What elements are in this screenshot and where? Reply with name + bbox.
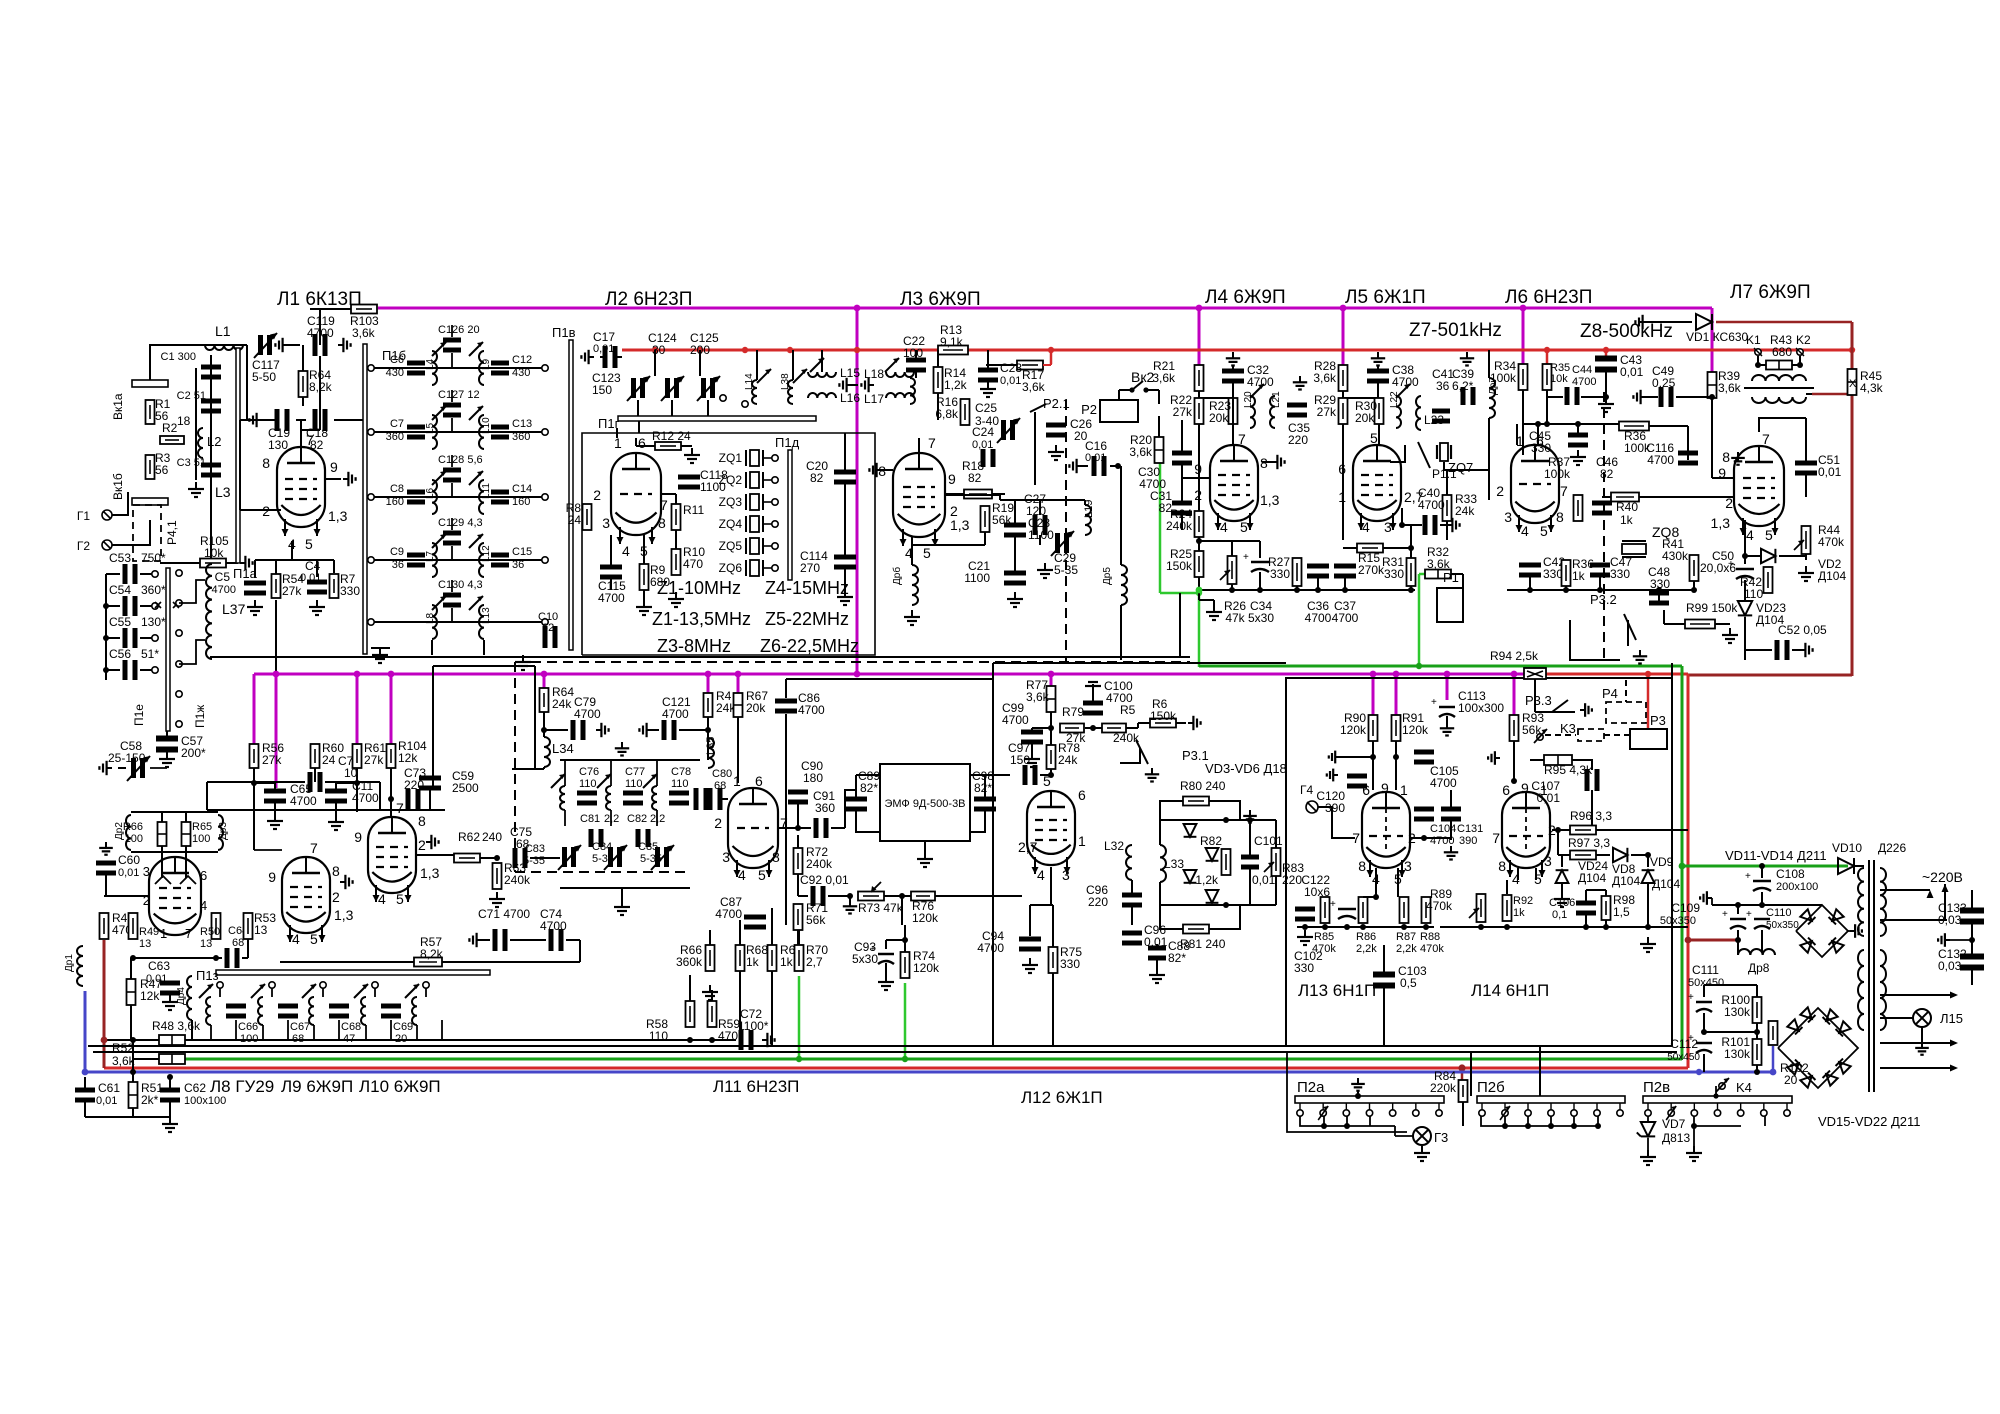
svg-text:9: 9: [330, 459, 338, 475]
svg-text:3,6k: 3,6k: [1022, 380, 1046, 394]
connector П1д bar: [788, 450, 792, 580]
svg-text:3: 3: [1062, 867, 1070, 883]
svg-text:2,7: 2,7: [806, 955, 823, 969]
svg-text:470: 470: [683, 557, 703, 571]
resistor R11: [672, 504, 681, 530]
svg-text:R73 47k: R73 47k: [858, 901, 904, 915]
wire magenta drop R93: [1513, 674, 1516, 716]
svg-text:2,2: 2,2: [650, 813, 665, 825]
svg-text:R48 3,6k: R48 3,6k: [152, 1019, 201, 1033]
cap C5: [244, 581, 266, 586]
series cap C128: [443, 468, 461, 473]
svg-text:L22: L22: [1389, 391, 1400, 408]
wire П2в links: [1694, 1116, 1741, 1126]
coil L34: [544, 737, 550, 767]
svg-text:120k: 120k: [1340, 723, 1367, 737]
svg-text:Л13 6Н1П: Л13 6Н1П: [1298, 981, 1376, 1000]
cap C21: [1004, 571, 1026, 576]
cap C20: [834, 470, 856, 475]
svg-text:0,01: 0,01: [96, 1095, 117, 1107]
svg-text:L13: L13: [481, 607, 492, 624]
resistor R46: [100, 913, 109, 939]
svg-text:24k: 24k: [1455, 504, 1475, 518]
svg-text:1k: 1k: [746, 955, 760, 969]
svg-text:C56: C56: [109, 647, 131, 661]
svg-text:750*: 750*: [141, 551, 166, 565]
svg-text:C109: C109: [1671, 901, 1700, 915]
diode VD11: [1800, 909, 1815, 924]
svg-text:2,2: 2,2: [604, 813, 619, 825]
gnd-cap C71: [477, 939, 482, 941]
svg-text:П1ж: П1ж: [193, 705, 207, 728]
choke Дрб: [912, 565, 918, 605]
svg-text:7: 7: [660, 497, 668, 513]
svg-text:Вк1а: Вк1а: [111, 393, 125, 420]
gnd C62: [169, 1117, 171, 1124]
gnd R105: [240, 562, 245, 564]
resistor R75: [1049, 947, 1058, 973]
resistor R28: [1339, 365, 1348, 391]
tube Л6: [1511, 445, 1559, 523]
cap C119: [313, 334, 318, 356]
resistor R90: [1369, 715, 1378, 741]
gnd C131: [1450, 846, 1452, 852]
svg-text:4700: 4700: [1002, 713, 1029, 727]
connector П2б contacts: [1479, 1110, 1485, 1116]
wire magenta drop R28: [1342, 308, 1345, 366]
svg-text:П1в: П1в: [552, 325, 576, 340]
svg-text:П2б: П2б: [1477, 1079, 1505, 1096]
svg-text:Л14 6Н1П: Л14 6Н1П: [1471, 981, 1549, 1000]
gnd L2: [195, 482, 197, 489]
svg-text:4700: 4700: [1572, 376, 1596, 388]
resistor R23: [1229, 398, 1238, 424]
tube Л2: [611, 453, 661, 535]
wire cathode leads: [240, 509, 281, 511]
svg-text:5-50: 5-50: [252, 370, 276, 384]
svg-text:82: 82: [968, 471, 982, 485]
resistor R30: [1375, 398, 1384, 424]
cap C11: [325, 789, 347, 794]
diode VD6: [1206, 890, 1219, 903]
resistor R99: [1685, 620, 1715, 629]
svg-text:1,3: 1,3: [334, 907, 354, 923]
resistor R71: [794, 904, 803, 930]
svg-text:R85: R85: [1314, 931, 1334, 943]
svg-text:5-35: 5-35: [592, 853, 614, 865]
resistor R2: [160, 436, 184, 444]
diode VD24: [1556, 870, 1569, 883]
resistor R70: [795, 945, 804, 971]
svg-text:18: 18: [177, 414, 191, 428]
filter tank C68: [320, 982, 326, 988]
cap C26: [1046, 423, 1066, 428]
resistor R74: [901, 952, 910, 978]
trim C83: [562, 847, 567, 867]
cap C92: [811, 886, 816, 906]
gnd VD7: [1647, 1150, 1649, 1157]
svg-text:56: 56: [155, 463, 169, 477]
svg-text:3: 3: [722, 849, 730, 865]
svg-text:Л8 ГУ29: Л8 ГУ29: [210, 1077, 274, 1096]
svg-text:C69: C69: [393, 1021, 413, 1033]
cap C10: [543, 626, 548, 648]
gnd C93: [885, 975, 887, 982]
svg-text:7: 7: [396, 800, 404, 816]
wire П1з: [216, 970, 490, 975]
svg-text:L2: L2: [207, 434, 221, 449]
svg-text:0,01: 0,01: [1818, 465, 1842, 479]
cap C88: [1148, 946, 1166, 951]
svg-text:8,2k: 8,2k: [309, 380, 333, 394]
cap C118: [678, 475, 700, 480]
cap C65: [264, 789, 286, 794]
svg-text:C8: C8: [390, 483, 404, 495]
cap C107: [1585, 769, 1590, 791]
svg-text:C81: C81: [580, 813, 600, 825]
svg-text:50x350: 50x350: [1660, 915, 1696, 927]
resistor R78: [1047, 745, 1056, 769]
filter row L6/L11: [371, 496, 545, 498]
svg-text:C68: C68: [341, 1021, 361, 1033]
resistor R43: [1766, 361, 1792, 370]
svg-text:C85: C85: [638, 841, 658, 853]
filter tank C67: [269, 982, 275, 988]
svg-text:1100: 1100: [1028, 528, 1054, 542]
svg-text:3,6k: 3,6k: [1152, 371, 1176, 385]
svg-text:Д813: Д813: [1662, 1131, 1690, 1145]
coil L20: [1250, 396, 1255, 428]
gnd right of C119: [338, 344, 343, 346]
svg-text:110: 110: [671, 778, 689, 790]
diode VD2: [1761, 549, 1775, 563]
svg-text:82*: 82*: [860, 781, 878, 795]
cap C64: [225, 948, 230, 968]
resistor R14: [934, 367, 943, 393]
wire Л6 pin1: [1516, 424, 1518, 445]
cap C53: [123, 564, 128, 584]
svg-text:8: 8: [658, 515, 666, 531]
resistor R92: [1503, 895, 1512, 921]
svg-text:C66: C66: [238, 1021, 258, 1033]
svg-text:1,3: 1,3: [1260, 492, 1280, 508]
svg-text:13: 13: [139, 938, 151, 950]
trim cap C124: [665, 378, 670, 398]
svg-text:3: 3: [143, 864, 150, 879]
svg-text:4: 4: [1521, 523, 1529, 539]
gnd C11: [335, 815, 337, 822]
gnd C26: [1055, 445, 1057, 452]
svg-text:C110: C110: [1766, 907, 1791, 919]
svg-text:3,6k: 3,6k: [1718, 381, 1742, 395]
svg-text:240k: 240k: [806, 857, 833, 871]
gnd P3.2: [1639, 650, 1641, 656]
svg-text:120k: 120k: [913, 961, 940, 975]
cap C40: [1423, 515, 1428, 535]
cap C45: [1568, 433, 1588, 438]
diode VD3: [1184, 824, 1197, 837]
coil L19: [1085, 505, 1091, 535]
svg-text:C23: C23: [1000, 361, 1022, 375]
coil L35: [708, 738, 714, 768]
svg-text:ZQ6: ZQ6: [719, 561, 743, 575]
svg-text:2500: 2500: [452, 781, 479, 795]
svg-text:Р4,1: Р4,1: [165, 520, 179, 545]
gnd Г3: [1421, 1146, 1423, 1153]
svg-text:7: 7: [310, 840, 318, 856]
resistor R27: [1293, 558, 1302, 586]
wire plate row: [254, 560, 256, 574]
wire red bottom segment right: [1688, 674, 1852, 677]
diode VD19: [1787, 1060, 1802, 1075]
wire magenta drop R104: [390, 674, 393, 745]
svg-text:ЭМФ 9Д-500-3В: ЭМФ 9Д-500-3В: [884, 798, 965, 810]
wire red left vertical: [103, 940, 106, 1068]
svg-text:P4: P4: [1602, 686, 1618, 701]
connector П2б bar: [1477, 1096, 1625, 1103]
winding W3: [1880, 950, 1886, 1030]
diode VD21: [1823, 1071, 1838, 1086]
gnd C113: [1446, 722, 1448, 728]
resistor R18: [964, 490, 992, 499]
svg-text:1,3: 1,3: [950, 517, 970, 533]
wire blue bottom bus: [85, 1071, 1773, 1074]
trim cap C29: [1055, 533, 1060, 553]
cap C131: [1441, 807, 1461, 812]
svg-text:4: 4: [200, 898, 207, 913]
svg-text:330: 330: [1610, 567, 1630, 581]
wire red jog R17: [1050, 350, 1053, 364]
dashed vertical P2: [1065, 400, 1067, 662]
resistor R45: [1848, 369, 1857, 395]
connector П1б bar: [363, 344, 367, 654]
svg-text:2: 2: [332, 889, 340, 905]
cap C101: [1241, 855, 1259, 860]
lamp Г3: [1413, 1127, 1431, 1145]
resistor R48: [159, 1035, 185, 1045]
transformer K1/K2: [1755, 349, 1761, 355]
gnd filter bottom: [621, 900, 623, 907]
gnd between: [847, 384, 852, 386]
coil L33: [1160, 845, 1166, 882]
svg-text:C5: C5: [215, 570, 231, 584]
gnd ЭМФ: [924, 852, 926, 859]
svg-text:4700: 4700: [540, 919, 567, 933]
wire magenta drop R39: [1711, 308, 1714, 373]
wire green jog: [1160, 592, 1199, 595]
wire bottom: [84, 1101, 86, 1117]
svg-text:C83: C83: [525, 843, 545, 855]
svg-text:2,7: 2,7: [1018, 839, 1038, 855]
wire rect node: [1712, 904, 1790, 906]
svg-text:4700: 4700: [1305, 611, 1332, 625]
resistor R5: [1102, 724, 1126, 733]
svg-text:8: 8: [1498, 858, 1506, 874]
cap C104: [1414, 807, 1434, 812]
svg-text:1: 1: [1400, 782, 1408, 798]
svg-text:130*: 130*: [141, 615, 166, 629]
svg-text:330: 330: [1384, 567, 1404, 581]
diode VD4: [1206, 848, 1219, 861]
connector П1а bar: [236, 348, 240, 563]
series cap C127: [443, 403, 461, 408]
svg-text:1: 1: [1540, 782, 1548, 798]
svg-text:100: 100: [903, 346, 923, 360]
svg-text:36: 36: [512, 559, 524, 571]
resistor R68: [736, 945, 745, 971]
svg-text:Z5-22MHz: Z5-22MHz: [765, 609, 849, 629]
svg-text:20: 20: [1784, 1073, 1798, 1087]
svg-text:0,01: 0,01: [118, 867, 139, 879]
resistor R47: [127, 979, 136, 1005]
diode VD16: [1800, 1007, 1815, 1022]
switch bar bot: [132, 498, 168, 505]
svg-text:2: 2: [418, 837, 426, 853]
resistor R22: [1195, 398, 1204, 424]
gnd C58: [107, 767, 112, 769]
svg-text:R96 3,3: R96 3,3: [1570, 809, 1612, 823]
connector П2а contacts: [1297, 1110, 1303, 1116]
gnd C88: [1156, 968, 1158, 975]
resistor R32: [1425, 570, 1451, 579]
coil L38: [788, 380, 793, 404]
svg-text:Л2 6Н23П: Л2 6Н23П: [605, 289, 692, 310]
resistor R102: [1769, 1021, 1778, 1045]
wire top anode bus (magenta): [378, 307, 1712, 310]
diode VD17: [1823, 1009, 1838, 1024]
svg-text:4700: 4700: [715, 907, 742, 921]
svg-text:5: 5: [1765, 527, 1773, 543]
svg-text:1k: 1k: [780, 955, 794, 969]
winding W4: [1858, 950, 1864, 1030]
cap C62: [160, 1088, 180, 1093]
svg-text:L3: L3: [215, 484, 231, 500]
svg-text:~220В: ~220В: [1922, 869, 1963, 885]
svg-text:110: 110: [579, 778, 597, 790]
cap C50: [1736, 568, 1754, 571]
svg-text:Z3-8MHz: Z3-8MHz: [657, 636, 731, 656]
cap C60: [96, 861, 116, 866]
svg-text:3: 3: [1384, 519, 1392, 535]
wire к С74: [579, 940, 581, 962]
wire R69 down: [771, 971, 773, 1046]
series cap C80: [694, 788, 699, 810]
gnd-cap C72: [762, 1039, 767, 1041]
svg-text:240k: 240k: [1166, 519, 1193, 533]
crystal ZQ5: [754, 545, 756, 547]
svg-text:5-35: 5-35: [1054, 563, 1078, 577]
resistor R103: [351, 305, 377, 314]
svg-text:L21: L21: [1271, 391, 1282, 408]
resistor R19: [981, 506, 990, 532]
wire dashed top link: [856, 657, 858, 674]
svg-text:C4: C4: [305, 559, 321, 573]
svg-text:4: 4: [738, 867, 746, 883]
gnd-cap C17: [589, 356, 594, 358]
resistor R7: [330, 574, 339, 598]
svg-text:ZQ3: ZQ3: [719, 495, 743, 509]
cap C4: [307, 580, 327, 585]
gnd П2в: [1693, 1146, 1695, 1153]
resistor R101: [1753, 1039, 1762, 1065]
tube Л9: [282, 857, 330, 933]
svg-text:R81 240: R81 240: [1180, 937, 1226, 951]
connector П2а bar: [1295, 1096, 1444, 1103]
svg-text:L11: L11: [481, 483, 492, 499]
svg-text:20,0x6: 20,0x6: [1700, 561, 1736, 575]
svg-text:C112: C112: [1670, 1037, 1698, 1051]
gnd g Л14: [1495, 757, 1500, 759]
wire magenta drop R34: [1522, 308, 1525, 364]
svg-text:7: 7: [1560, 483, 1568, 499]
resistor R8: [583, 504, 592, 530]
wire Л7 grid9: [1711, 411, 1713, 478]
svg-text:9: 9: [354, 829, 362, 845]
cap C17: [603, 346, 608, 368]
svg-text:5: 5: [1370, 430, 1378, 446]
terminal Г4: [1306, 801, 1318, 813]
svg-text:360: 360: [512, 431, 530, 443]
svg-text:C52 0,05: C52 0,05: [1778, 623, 1827, 637]
svg-text:P2.1: P2.1: [1043, 396, 1070, 411]
tube Л11: [728, 788, 778, 868]
svg-text:360: 360: [386, 431, 404, 443]
svg-text:C55: C55: [109, 615, 131, 629]
wire П2а lower links: [1300, 1116, 1395, 1126]
cap C94: [1019, 937, 1041, 942]
svg-text:1,2k: 1,2k: [1195, 873, 1219, 887]
svg-text:C71 4700: C71 4700: [478, 907, 530, 921]
svg-text:C128 5,6: C128 5,6: [438, 454, 483, 466]
diode bridge VD3-VD6: [1159, 820, 1161, 845]
cap C102: [1295, 907, 1315, 912]
cap C56: [123, 660, 128, 680]
bridge VD15-VD22: [1778, 1008, 1858, 1088]
svg-text:20k: 20k: [1209, 411, 1229, 425]
svg-text:4: 4: [378, 891, 386, 907]
svg-text:C104: C104: [1430, 823, 1456, 835]
cap C35: [1287, 403, 1307, 408]
gnd-cap C121: [647, 729, 652, 731]
svg-text:3: 3: [1504, 509, 1512, 525]
svg-text:7: 7: [1492, 830, 1500, 846]
resistor R54: [272, 574, 281, 598]
svg-text:+: +: [1745, 871, 1751, 882]
tube Л12: [1027, 791, 1075, 865]
choke Др2: [126, 815, 131, 850]
svg-text:68: 68: [292, 1033, 304, 1045]
resistor R67: [734, 693, 743, 717]
crystal ZQ2: [754, 479, 756, 481]
tube Л1: [277, 447, 325, 527]
svg-text:C80: C80: [712, 768, 732, 780]
resistor R98: [1602, 896, 1611, 920]
svg-text:130k: 130k: [1724, 1047, 1751, 1061]
svg-text:470k: 470k: [1426, 899, 1453, 913]
resistor R66b: [706, 945, 715, 971]
svg-text:24k: 24k: [1058, 753, 1078, 767]
gnd C114: [844, 590, 846, 597]
cap C116: [1678, 451, 1698, 456]
svg-text:Л11 6Н23П: Л11 6Н23П: [713, 1077, 799, 1096]
cap C28: [1004, 523, 1026, 528]
svg-text:C25: C25: [975, 401, 997, 415]
choke Др1: [77, 946, 83, 986]
svg-text:L5: L5: [425, 422, 436, 434]
resistor R69: [768, 945, 777, 971]
svg-text:R86: R86: [1356, 931, 1376, 943]
svg-text:330: 330: [1060, 957, 1080, 971]
